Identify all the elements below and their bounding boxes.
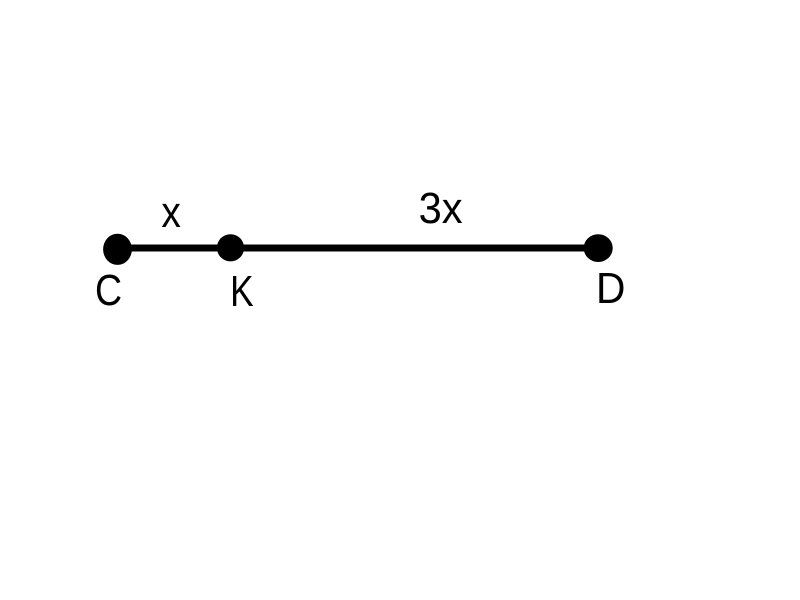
wire segment C-D bbox=[117, 245, 599, 252]
svg-text:D: D bbox=[596, 264, 625, 313]
node K (point dot) bbox=[217, 234, 244, 261]
svg-text:x: x bbox=[161, 188, 181, 237]
svg-text:K: K bbox=[230, 267, 254, 316]
svg-text:C: C bbox=[95, 266, 122, 315]
svg-text:3x: 3x bbox=[419, 184, 463, 233]
node C (point dot) bbox=[103, 234, 132, 265]
node D (point dot) bbox=[584, 234, 613, 262]
